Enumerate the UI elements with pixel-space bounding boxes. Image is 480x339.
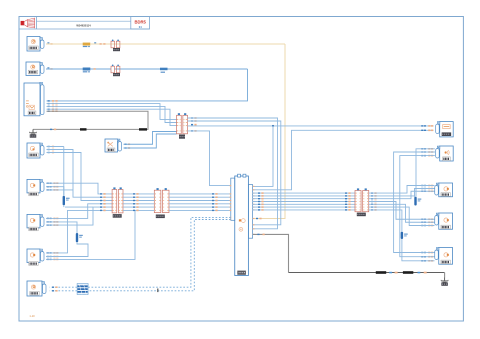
svg-text:BDR5: BDR5 [134,20,146,25]
svg-text:1-10: 1-10 [29,314,35,318]
svg-text:W54630114: W54630114 [76,23,91,27]
